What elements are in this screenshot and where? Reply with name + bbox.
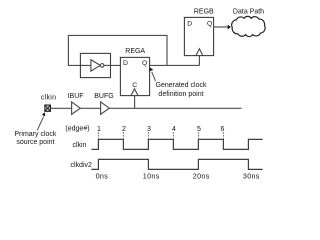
inverter triangle bbox=[91, 60, 100, 71]
buffer IBUF bbox=[72, 102, 81, 115]
svg-text:BUFG: BUFG bbox=[94, 93, 113, 100]
svg-text:3: 3 bbox=[147, 126, 151, 133]
flip-flop REGA bbox=[120, 57, 149, 95]
svg-text:definition point: definition point bbox=[158, 91, 203, 98]
svg-text:Primary clock: Primary clock bbox=[14, 131, 57, 138]
svg-text:0ns: 0ns bbox=[96, 172, 109, 181]
wire feedback loop from Q net up over to inverter input bbox=[68, 35, 167, 65]
wire BUFG output clock net bbox=[109, 107, 241, 109]
svg-text:D: D bbox=[123, 60, 128, 67]
annotation arrow generated clock definition point bbox=[152, 72, 156, 81]
REGB clock triangle bbox=[196, 49, 203, 56]
inverter bubble bbox=[100, 64, 104, 68]
svg-text:clkdiv2: clkdiv2 bbox=[71, 162, 93, 169]
svg-text:4: 4 bbox=[172, 126, 176, 133]
wire node Q of REGA (generated clock net) bbox=[150, 64, 200, 66]
flip-flop REGB bbox=[184, 17, 213, 55]
edge tick 5 bbox=[197, 132, 199, 138]
waveform clkin bbox=[91, 139, 262, 149]
svg-text:Data Path: Data Path bbox=[233, 9, 264, 16]
svg-text:Q: Q bbox=[142, 60, 147, 67]
svg-text:Generated clock: Generated clock bbox=[156, 82, 207, 89]
svg-text:2: 2 bbox=[122, 126, 126, 133]
svg-text:C: C bbox=[132, 82, 137, 89]
svg-text:REGA: REGA bbox=[125, 48, 145, 55]
wire inverter output to REGA D input bbox=[104, 64, 121, 66]
svg-text:30ns: 30ns bbox=[243, 172, 260, 181]
wire pad to IBUF bbox=[51, 107, 72, 109]
arrowhead REGB Q to cloud bbox=[228, 25, 231, 30]
wire generated clock up to REGB clock pin bbox=[198, 56, 200, 66]
REGA clock triangle bbox=[131, 89, 138, 96]
edge tick 4 bbox=[172, 132, 174, 138]
waveform clkdiv2 bbox=[91, 159, 262, 169]
svg-text:20ns: 20ns bbox=[193, 172, 210, 181]
svg-text:(edge#): (edge#) bbox=[65, 126, 89, 133]
svg-text:10ns: 10ns bbox=[143, 172, 160, 181]
svg-text:1: 1 bbox=[97, 126, 101, 133]
svg-text:IBUF: IBUF bbox=[68, 93, 84, 100]
edge tick 3 bbox=[147, 132, 149, 138]
svg-text:Q: Q bbox=[207, 20, 212, 27]
svg-text:source point: source point bbox=[16, 139, 54, 146]
svg-text:D: D bbox=[187, 20, 192, 27]
svg-text:REGB: REGB bbox=[194, 9, 214, 16]
wire clock net branch to REGA C bbox=[134, 96, 136, 109]
wire IBUF to BUFG bbox=[80, 107, 100, 109]
svg-text:5: 5 bbox=[197, 126, 201, 133]
edge tick 6 bbox=[222, 132, 224, 138]
edge tick 2 bbox=[122, 132, 124, 138]
annotation arrow primary clock source point bbox=[37, 117, 43, 131]
buffer BUFG bbox=[101, 102, 110, 115]
cloud Data Path bbox=[232, 16, 266, 36]
svg-text:clkin: clkin bbox=[41, 94, 57, 101]
svg-text:clkin: clkin bbox=[73, 142, 87, 149]
svg-text:6: 6 bbox=[220, 126, 224, 133]
edge tick 1 bbox=[97, 132, 99, 138]
wire REGB Q output to data path cloud bbox=[214, 26, 228, 28]
inverter box bbox=[80, 53, 110, 77]
pad clkin input bbox=[45, 105, 51, 111]
